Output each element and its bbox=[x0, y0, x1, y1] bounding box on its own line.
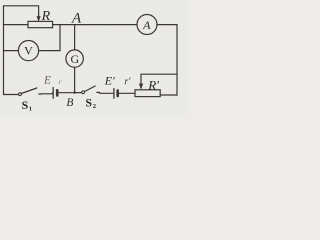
wire R' to rail bbox=[160, 94, 177, 96]
wire V branch vertical bbox=[59, 25, 61, 51]
wire S1 to E bbox=[42, 92, 53, 95]
wire right rail bbox=[176, 25, 178, 96]
svg-text:A: A bbox=[142, 18, 151, 32]
rheostat R' bbox=[135, 84, 160, 97]
svg-text:S: S bbox=[22, 98, 29, 112]
wire E to B bbox=[59, 92, 74, 94]
wire S2 to E' bbox=[100, 92, 114, 94]
paper background bbox=[0, 0, 187, 115]
battery E bbox=[53, 88, 57, 99]
wire left rail bbox=[3, 6, 5, 95]
svg-text:V: V bbox=[24, 43, 33, 57]
voltmeter V bbox=[18, 41, 38, 61]
wire G branch upper bbox=[74, 25, 76, 50]
svg-text:1: 1 bbox=[29, 105, 32, 112]
node A bbox=[71, 10, 82, 26]
ammeter A bbox=[137, 15, 157, 35]
svg-text:R′: R′ bbox=[147, 77, 159, 92]
rheostat R bbox=[28, 14, 53, 28]
wire V right lead bbox=[39, 50, 60, 52]
svg-text:E′: E′ bbox=[104, 74, 115, 88]
battery E' bbox=[114, 89, 118, 99]
switch S2 bbox=[82, 86, 100, 110]
svg-text:B: B bbox=[66, 97, 73, 109]
wire R left terminal bbox=[4, 24, 29, 26]
svg-text:r: r bbox=[59, 77, 62, 86]
node B junction bbox=[66, 91, 75, 109]
wire bottom left to S1 bbox=[4, 94, 19, 96]
svg-text:r′: r′ bbox=[124, 76, 131, 87]
svg-text:G: G bbox=[70, 52, 79, 66]
wire top slider loop bbox=[4, 6, 39, 15]
wire main top run bbox=[53, 24, 137, 26]
svg-text:E: E bbox=[43, 75, 51, 87]
svg-text:2: 2 bbox=[93, 103, 96, 110]
wire B to S2 bbox=[76, 92, 82, 94]
switch S1 bbox=[19, 88, 42, 112]
svg-text:R: R bbox=[41, 9, 51, 24]
svg-text:S: S bbox=[85, 95, 92, 109]
wire R' slider loop bbox=[141, 74, 177, 83]
wire G branch lower bbox=[74, 67, 76, 92]
galvanometer G bbox=[66, 50, 83, 67]
svg-text:A: A bbox=[71, 10, 82, 26]
wire V left lead bbox=[4, 50, 19, 52]
wire top right to rail bbox=[157, 24, 177, 26]
wire E' to R' bbox=[119, 92, 135, 94]
